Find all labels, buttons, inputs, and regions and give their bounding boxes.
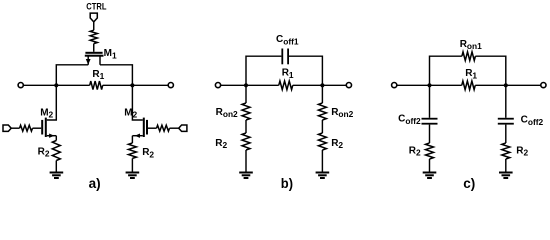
ground right c [499,172,513,180]
resistor R2 left b [242,133,250,150]
capacitor Coff1 branch left [246,56,281,85]
wire resistor to M1 gate [93,44,95,52]
sub-figure label b [281,175,293,191]
R2 left label a [38,146,50,158]
gate bias resistor [90,30,97,43]
svg-text:Coff2: Coff2 [521,115,544,128]
M2 right label [124,107,137,119]
sub-figure label c [463,175,475,191]
wire R2 to ground Rc [505,159,507,172]
node b left [244,83,248,87]
wire node to cap Lc [429,85,431,118]
svg-text:R2: R2 [331,138,343,150]
right output port [179,125,187,131]
R2 right label a [142,147,154,159]
wire between resistors Lb [245,120,247,133]
wire node to cap Rc [505,85,507,118]
wire cap to R2 Lc [429,125,431,143]
wire R1 to right terminal c [475,84,541,86]
Ron2 right label [331,107,353,119]
svg-text:CTRL: CTRL [86,2,107,12]
resistor R2 right b [318,133,326,150]
M1 drain arm [99,57,101,65]
svg-text:R1: R1 [92,69,104,81]
wire between resistors Rb [321,120,323,133]
wire R1 to right terminal b [293,84,347,86]
M2L source with arrow [47,134,57,141]
wire port to gate resistor R [170,127,179,129]
wire M1 source jog to left rail [56,65,88,86]
resistor Ron2 left [242,103,250,120]
svg-text:M2: M2 [124,107,137,119]
resistor R2 left a [52,141,60,161]
transistor M1 gate bar [85,52,102,54]
resistor Ron2 right [318,103,326,120]
capacitor Coff1 branch right [289,56,322,85]
resistor R1 c [462,81,476,90]
R2 left label b [215,138,227,150]
svg-text:R2: R2 [409,145,421,157]
capacitor Coff2 right plates [498,118,514,125]
left terminal of a [18,83,23,88]
svg-text:R2: R2 [38,146,50,158]
Coff2 left label [398,114,421,127]
svg-text:R2: R2 [516,146,528,158]
R2 right label b [331,138,343,150]
wire R2 to ground Lc [429,159,431,172]
ground right a [126,172,140,180]
resistor R2 left c [426,143,434,159]
node b right [320,83,324,87]
R1 label b [282,68,294,80]
ctrl label [86,2,107,12]
ground left c [423,172,437,180]
left terminal of c [392,83,397,88]
svg-text:R2: R2 [142,147,154,159]
ground left a [50,172,64,180]
wire M1 drain jog to right rail [100,65,132,86]
Coff1 label [276,34,299,47]
wire R1 to right terminal [103,84,169,86]
wire node to Ron2 right [321,85,323,103]
resistor R1 a [90,81,103,90]
gate resistor right [157,125,170,131]
resistor R2 right c [502,143,510,159]
wire node to Ron2 left [245,85,247,103]
wire terminal to R1 b [221,84,279,86]
transistor M2 left channel bar [45,118,47,137]
wire R2 to ground Ra [131,158,133,171]
svg-text:c): c) [463,175,475,191]
node c right [504,83,508,87]
ground left b [239,172,253,180]
right terminal of c [541,83,546,88]
svg-text:Coff1: Coff1 [276,34,299,47]
wire CTRL to gate resistor [93,22,95,30]
resistor R1 b [279,81,293,90]
right terminal of b [346,83,351,88]
Ron1 label [460,39,482,51]
node left rail [54,83,58,87]
svg-text:M1: M1 [104,48,117,60]
M2 left label [40,107,53,119]
wire cap to R2 Rc [505,125,507,143]
resistor R2 right a [128,143,136,158]
node c left [427,83,431,87]
Ron1 branch left [430,56,462,85]
transistor M2 right gate bar [146,120,148,135]
wire R2 to ground Rb [321,150,323,172]
M2R drain [132,85,142,120]
wire terminal to R1 [23,84,89,86]
M2L drain [47,85,57,120]
wire resistor to M2 gate L [33,127,42,129]
R1 label a [92,69,104,81]
resistor Ron1 [462,52,476,61]
right terminal of a [168,83,173,88]
M1 source arm with arrow [86,57,91,65]
transistor M2 left gate bar [41,120,43,135]
M2R source with arrow [132,134,142,144]
CTRL input port [90,13,97,22]
capacitor Coff1 plates [281,49,289,65]
svg-text:Coff2: Coff2 [398,114,421,127]
svg-text:b): b) [281,175,293,191]
R1 label c [465,68,477,80]
left terminal of b [215,83,220,88]
transistor M2 right channel bar [143,118,145,137]
Ron2 left label [216,107,238,119]
svg-text:M2: M2 [40,107,53,119]
left input port [3,125,11,131]
capacitor Coff2 left plates [422,118,438,125]
wire R2 to ground La [55,161,57,172]
wire port to gate resistor L [11,127,19,129]
svg-text:R2: R2 [215,138,227,150]
node right rail [130,83,134,87]
gate resistor left [20,125,33,131]
transistor M1 channel bar [85,55,104,57]
M1 label [104,48,117,60]
wire R2 to ground Lb [245,150,247,172]
wire resistor to M2 gate R [148,127,157,129]
sub-figure label a [89,175,101,191]
R2 right label c [516,146,528,158]
ground right b [316,172,330,180]
svg-text:R1: R1 [465,68,477,80]
svg-text:a): a) [89,175,101,191]
svg-text:Ron2: Ron2 [331,107,353,119]
Coff2 right label [521,115,544,128]
R2 left label c [409,145,421,157]
svg-text:Ron2: Ron2 [216,107,238,119]
svg-text:R1: R1 [282,68,294,80]
wire terminal to R1 c [397,84,462,86]
Ron1 branch right [475,56,505,85]
